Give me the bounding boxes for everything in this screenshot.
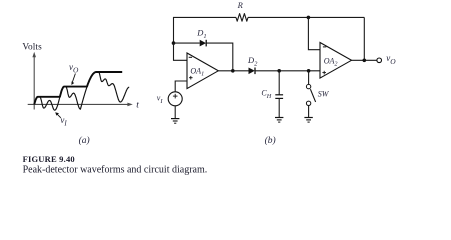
wire: OA2 inverting input branch	[308, 17, 320, 49]
wire: top feedback rail	[174, 17, 237, 43]
wire: switch to ground	[308, 106, 310, 118]
ground (switch)	[304, 118, 312, 123]
wire: top rail right of R	[248, 16, 364, 18]
ground (capacitor)	[275, 118, 283, 123]
svg-text:SW: SW	[318, 89, 330, 98]
svg-text:FIGURE 9.40: FIGURE 9.40	[23, 154, 75, 164]
wire: capacitor to ground	[278, 98, 280, 117]
wire: OA1 output	[218, 70, 248, 72]
switch SW	[306, 84, 315, 105]
capacitor CH	[275, 95, 283, 99]
wire: source to ground	[174, 106, 176, 119]
resistor R	[236, 14, 248, 22]
svg-text:(b): (b)	[265, 135, 276, 146]
ground (source)	[171, 119, 179, 124]
wire: OA1 inverting input lead	[174, 43, 188, 60]
label vI with arrow	[55, 112, 67, 127]
source vI	[168, 92, 182, 106]
svg-text:Peak-detector waveforms and ci: Peak-detector waveforms and circuit diag…	[23, 164, 208, 175]
svg-text:Volts: Volts	[22, 42, 42, 52]
waveform vertical axis (Volts)	[32, 52, 36, 110]
wire: feedback riser from output	[363, 17, 365, 60]
terminal vO	[377, 58, 382, 63]
wire: D1 anode wire	[174, 42, 200, 44]
label vO with arrow	[69, 62, 79, 85]
node: switch node	[307, 69, 311, 73]
op-amp OA2	[320, 43, 352, 79]
op-amp OA1	[187, 53, 218, 89]
waveform horizontal axis (t)	[28, 103, 133, 107]
node: OA1 output junction	[231, 69, 235, 73]
wire: OA2 output	[352, 59, 377, 61]
diode D1	[200, 40, 207, 47]
wire: D1 cathode to OA1 output	[206, 43, 233, 71]
wire: node to capacitor	[278, 71, 280, 95]
node: hold-capacitor node	[277, 69, 281, 73]
wire: D2 cathode to OA2 noninverting input	[255, 70, 320, 72]
wire: OA1 noninverting input lead	[175, 81, 187, 92]
svg-text:R: R	[237, 0, 244, 10]
wire: node to switch	[308, 71, 310, 85]
vO waveform curve (peak-hold)	[34, 72, 122, 104]
diode D2	[249, 68, 256, 75]
node: OA1 inverting node	[172, 41, 176, 45]
node: top tap to OA2 inverting input	[307, 16, 311, 20]
svg-text:t: t	[136, 100, 139, 110]
node: output junction	[363, 59, 367, 63]
vI waveform curve	[34, 72, 129, 110]
svg-text:(a): (a)	[79, 135, 90, 146]
